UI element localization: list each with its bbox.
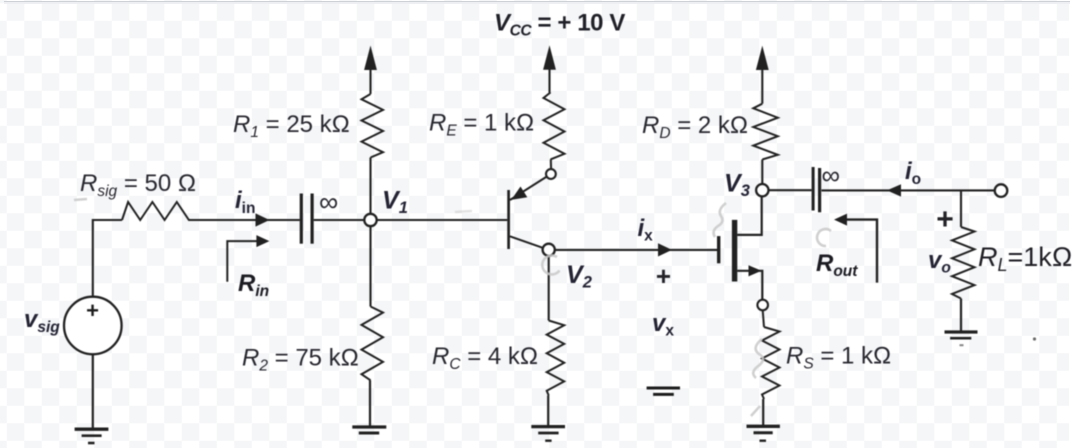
resistor Rsig xyxy=(122,202,195,220)
transistor Q1 base bar xyxy=(507,190,510,249)
wire emitter circle to RE xyxy=(550,159,552,169)
node V3 xyxy=(756,184,768,196)
current arrow i_x xyxy=(658,243,672,256)
svg-text:+: + xyxy=(936,203,954,236)
transistor Q2 source lead xyxy=(737,271,762,300)
svg-text:RS = 1 kΩ: RS = 1 kΩ xyxy=(786,343,892,373)
wire RC to ground xyxy=(547,396,549,427)
current arrow i_o xyxy=(887,184,901,196)
wire output node down to RL xyxy=(960,190,962,227)
svg-text:vx: vx xyxy=(652,310,674,340)
wire V3 to C2 xyxy=(769,189,812,191)
svg-text:V1: V1 xyxy=(382,187,408,218)
output resistance bracket R_out xyxy=(846,220,877,283)
wire V2 down to RC xyxy=(548,256,550,321)
resistor R1 xyxy=(362,94,384,158)
svg-text:ix: ix xyxy=(638,215,654,245)
transistor Q2 gate bar xyxy=(717,236,720,263)
resistor RS xyxy=(762,327,780,399)
svg-text:Rin: Rin xyxy=(238,270,269,300)
transistor Q1 emitter xyxy=(510,177,547,200)
input resistance bracket R_in xyxy=(227,241,257,282)
wire C2 to output terminal xyxy=(822,189,995,191)
wire source up to Rsig xyxy=(93,220,122,297)
svg-text:∞: ∞ xyxy=(319,187,338,217)
wire V1 down to R2 xyxy=(369,226,371,306)
svg-text:RD = 2 kΩ: RD = 2 kΩ xyxy=(642,112,748,142)
capacitor C1 plate left xyxy=(300,194,303,244)
supply arrow above RE xyxy=(548,66,550,92)
svg-text:V2: V2 xyxy=(566,261,592,292)
current arrow i_in xyxy=(256,213,270,226)
node V2 xyxy=(543,244,555,256)
wire RS to ground xyxy=(762,399,764,426)
transistor Q1 collector xyxy=(510,236,543,248)
resistor RL xyxy=(952,227,975,299)
resistor R2 xyxy=(362,307,384,381)
capacitor C2 plate left xyxy=(812,167,815,211)
svg-text:VCC = + 10 V: VCC = + 10 V xyxy=(494,10,625,40)
node V1 xyxy=(364,214,376,226)
capacitor C2 plate right xyxy=(818,168,821,212)
wire V3 up to RD xyxy=(761,160,763,185)
wire source to ground xyxy=(92,354,94,428)
transistor Q2 drain lead xyxy=(737,196,762,235)
resistor RE xyxy=(544,92,565,159)
wire RL to ground xyxy=(960,299,962,332)
svg-text:V3: V3 xyxy=(724,170,750,201)
wire V2 to FET gate xyxy=(555,249,717,251)
ground (R2) xyxy=(352,427,386,433)
svg-text:RC = 4 kΩ: RC = 4 kΩ xyxy=(432,343,538,373)
supply arrow above RD xyxy=(761,66,763,104)
svg-text:Rsig = 50 Ω: Rsig = 50 Ω xyxy=(80,170,196,200)
ground (v_sig) xyxy=(75,429,109,443)
resistor RD xyxy=(753,104,778,160)
svg-text:io: io xyxy=(905,158,921,188)
resistor RC xyxy=(547,321,565,396)
wire R2 to ground xyxy=(369,380,371,426)
svg-text:R1 = 25 kΩ: R1 = 25 kΩ xyxy=(233,111,350,141)
svg-text:vo: vo xyxy=(928,247,951,277)
voltage source v_sig xyxy=(64,297,122,355)
wire V1 up to R1 xyxy=(369,158,371,214)
ground (RS) xyxy=(747,426,780,440)
wire C1 to node V1 xyxy=(314,219,365,221)
svg-text:vsig: vsig xyxy=(24,306,60,336)
svg-text:RE = 1 kΩ: RE = 1 kΩ xyxy=(429,110,535,140)
svg-text:+: + xyxy=(656,261,671,291)
faint stray marks xyxy=(74,199,831,416)
emitter terminal circle xyxy=(546,169,556,179)
output terminal circle xyxy=(995,184,1008,197)
svg-text:∞: ∞ xyxy=(822,160,841,190)
svg-text:iin: iin xyxy=(235,187,255,217)
svg-text:RL=1kΩ: RL=1kΩ xyxy=(978,242,1073,275)
ground (RL) xyxy=(945,332,978,345)
svg-text:R2 = 75 kΩ: R2 = 75 kΩ xyxy=(242,345,359,375)
wire V1 to BJT base xyxy=(377,219,508,221)
svg-text:Rout: Rout xyxy=(816,250,858,280)
transistor Q2 channel bar xyxy=(732,220,737,282)
capacitor C1 plate right xyxy=(311,194,314,244)
wire Rsig to C1 xyxy=(195,219,300,221)
source terminal circle xyxy=(757,300,768,311)
ground (RC) xyxy=(531,427,565,441)
supply arrow above R1 xyxy=(369,66,371,94)
wire source circle to RS xyxy=(763,310,764,327)
ground reference (v_x) xyxy=(647,388,680,394)
svg-text:+: + xyxy=(86,298,99,323)
